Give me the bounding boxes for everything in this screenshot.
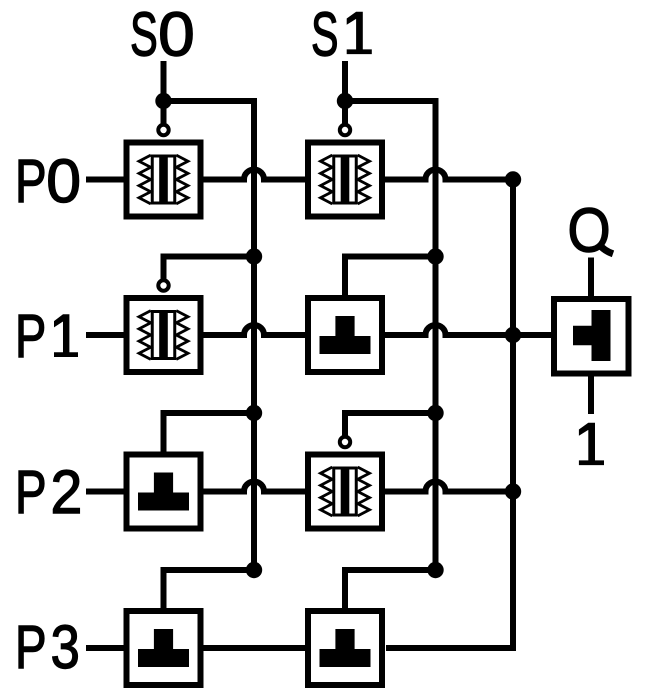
wire S0 stem	[161, 61, 167, 101]
pass switch X00 box (P0 / S0)	[127, 143, 201, 217]
svg-text:0: 0	[158, 0, 195, 69]
junction dot S1	[337, 93, 353, 109]
svg-text:2: 2	[51, 458, 83, 527]
wire bus B tap to switch X31	[345, 570, 436, 609]
pass switch X30 T symbol	[138, 629, 189, 667]
output buffer U1 T symbol	[573, 310, 611, 361]
junction dot bus A / P1 tap	[246, 248, 262, 264]
wire output box bottom to constant 1	[588, 372, 594, 414]
pass switch X01 crystal symbol	[321, 155, 370, 205]
wire bus A tap to switch X30	[164, 570, 255, 609]
pass switch X00 crystal symbol	[139, 155, 188, 205]
pass switch X11 T symbol	[320, 316, 371, 354]
wire row P2 with hops over bus A and bus B	[86, 482, 513, 492]
wire row P0 with hops over bus A and bus B	[86, 170, 513, 180]
wire row P3	[86, 645, 310, 651]
wire bus A tap to switch X10	[164, 257, 255, 280]
pass switch X21 crystal symbol	[321, 467, 370, 517]
junction dot bus A / P3 tap	[246, 562, 262, 578]
wire bus B tap to switch X11	[345, 257, 436, 297]
junction dot S0	[155, 93, 171, 109]
svg-text:P: P	[15, 458, 47, 527]
svg-text:P: P	[15, 147, 47, 216]
svg-text:S: S	[311, 0, 339, 69]
svg-text:3: 3	[51, 613, 80, 682]
wire S1 stem	[342, 61, 348, 101]
svg-text:0: 0	[46, 147, 81, 216]
junction dot bus B / P1 tap	[427, 248, 443, 264]
pass switch X01 box (P0 / S1)	[308, 143, 382, 217]
wire bus C output vertical and P3 row segment	[386, 180, 513, 649]
pass switch X20 T symbol	[138, 473, 189, 511]
inversion bubble on X10 control	[158, 280, 168, 290]
wire bus A tap to switch X20	[164, 413, 255, 452]
junction dot bus C / P2	[505, 483, 521, 499]
pass switch X31 box (P3 / S1)	[308, 611, 382, 685]
wire bus B: S1 junction across and down	[345, 101, 436, 570]
label constant 1	[579, 423, 604, 465]
pass switch X20 box (P2 / S0)	[127, 455, 201, 529]
wire S0 control drop to switch X00	[161, 101, 167, 124]
pass switch X21 box (P2 / S1)	[308, 455, 382, 529]
junction dot bus C / P0	[505, 171, 521, 187]
junction dot bus A / P2 tap	[246, 405, 262, 421]
svg-text:P: P	[15, 613, 47, 682]
pass switch X31 T symbol	[320, 629, 371, 667]
wire output box top to Q	[588, 258, 594, 301]
svg-text:O: O	[568, 195, 611, 265]
svg-text:P: P	[15, 302, 46, 371]
pass switch X10 box (P1 / S0)	[127, 298, 201, 372]
inversion bubble on X21 control	[340, 437, 350, 447]
wire row P1 with hops over bus A and bus B	[86, 325, 554, 335]
wire bus B tap to switch X21	[345, 413, 436, 436]
junction dot bus B / P3 tap	[427, 562, 443, 578]
wire bus A: S0 junction across and down	[164, 101, 255, 570]
pass switch X30 box (P3 / S0)	[127, 611, 201, 685]
junction dot bus C / P1 output	[505, 327, 521, 343]
svg-text:S: S	[130, 0, 158, 69]
output buffer box U1	[554, 299, 629, 374]
pass switch X11 box (P1 / S1)	[308, 298, 382, 372]
inversion bubble on X00 control	[158, 125, 168, 135]
inversion bubble on X01 control	[340, 125, 350, 135]
label Q tail	[599, 244, 614, 254]
junction dot bus B / P2 tap	[427, 405, 443, 421]
wire S1 control drop to switch X01	[342, 101, 348, 124]
pass switch X10 crystal symbol	[139, 310, 188, 360]
